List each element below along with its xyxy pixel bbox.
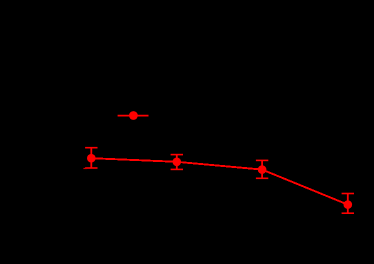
error bar P1 (85, 148, 97, 168)
error bar P2 (171, 155, 183, 170)
legend line sample (118, 115, 149, 117)
stray tick left of P1 bottom cap (83, 168, 87, 170)
data marker P3 (258, 165, 267, 174)
data marker P4 (344, 200, 353, 209)
error bar P3 (256, 160, 268, 178)
legend marker (129, 111, 138, 120)
data marker P2 (173, 158, 182, 167)
data line (series 1) (91, 158, 348, 204)
error bar P4 (342, 194, 354, 214)
data marker P1 (87, 154, 96, 163)
